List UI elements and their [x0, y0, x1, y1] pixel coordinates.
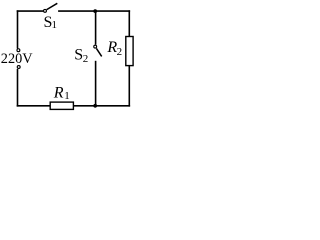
wire top-left segment [17, 10, 44, 12]
svg-text:1: 1 [64, 90, 70, 102]
svg-text:2: 2 [117, 46, 123, 58]
wire right edge lower [128, 66, 130, 107]
svg-text:1: 1 [52, 19, 58, 31]
svg-text:220V: 220V [1, 51, 33, 67]
wire left edge upper [17, 10, 19, 48]
switch S2 [74, 45, 102, 65]
wire left edge lower [17, 69, 19, 107]
wire S2 branch upper [95, 11, 97, 45]
wire right edge upper [128, 10, 130, 36]
wire top-right segment [58, 10, 130, 12]
wire bottom-right segment [73, 105, 130, 107]
resistor R2 [106, 37, 133, 66]
wire S2 branch lower [95, 61, 97, 106]
node A : top junction [93, 9, 97, 13]
node B : bottom junction [93, 104, 97, 108]
source 220V terminals [1, 49, 33, 69]
wire bottom-left segment [17, 105, 51, 107]
resistor R1 [50, 85, 73, 110]
switch S1 [44, 3, 58, 31]
svg-text:2: 2 [83, 53, 89, 65]
svg-text:R: R [53, 85, 64, 102]
